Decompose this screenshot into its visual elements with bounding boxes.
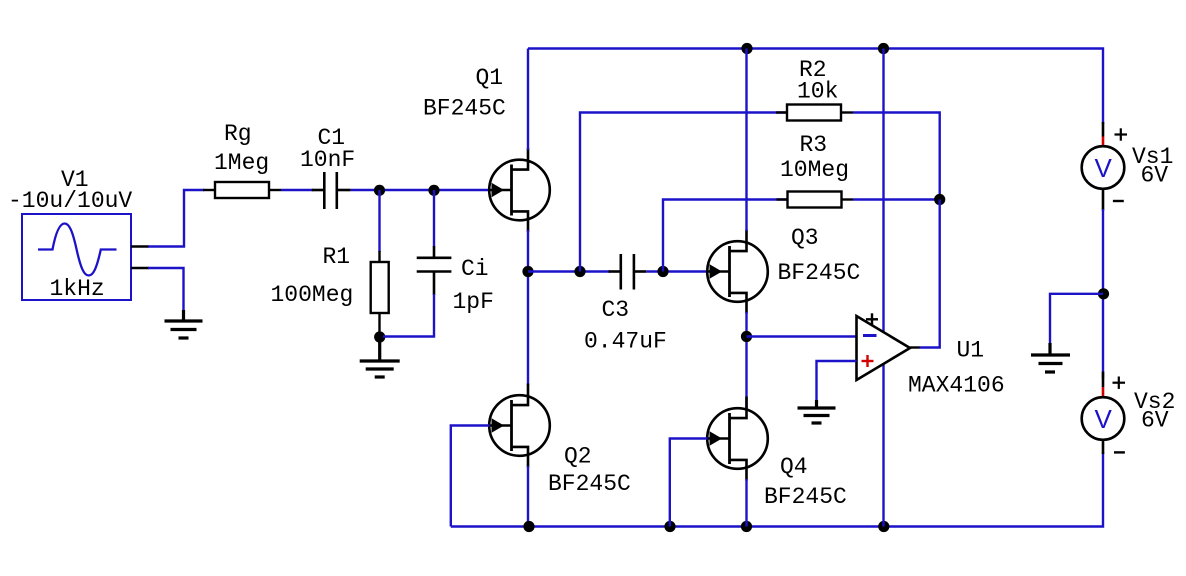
opamp U1 power top wire — [882, 49, 884, 334]
svg-text:BF245C: BF245C — [778, 260, 861, 286]
svg-text:Q1: Q1 — [476, 65, 504, 91]
node dot R2 R3 output — [934, 194, 945, 205]
svg-text:Q2: Q2 — [564, 444, 592, 470]
svg-text:1Meg: 1Meg — [214, 150, 269, 176]
wire output column down to opamp output — [919, 200, 940, 348]
wire Q2 gate loop — [451, 426, 490, 527]
svg-text:1kHz: 1kHz — [50, 276, 105, 302]
wire R3 right to output node — [853, 198, 940, 200]
wire Vs1 minus to mid node — [1102, 209, 1104, 379]
node dot opamp Vminus bottom rail — [878, 521, 889, 532]
wire R2 right to output column — [853, 113, 940, 196]
svg-text:V: V — [1095, 404, 1113, 434]
svg-text:U1: U1 — [957, 338, 985, 364]
op-amp U1 — [857, 313, 920, 380]
wire Q1 source down to Q2 drain — [527, 230, 529, 385]
svg-text:C3: C3 — [602, 297, 630, 323]
svg-text:R1: R1 — [323, 244, 351, 270]
transistor Q3 BF245C — [707, 230, 768, 314]
wire C1 to Q1 gate — [351, 189, 490, 191]
wire Rg to C1 — [281, 189, 313, 191]
capacitor Ci — [417, 246, 452, 295]
svg-text:0.47uF: 0.47uF — [584, 329, 667, 355]
svg-text:100Meg: 100Meg — [271, 282, 354, 308]
svg-text:6V: 6V — [1141, 163, 1169, 189]
svg-text:Q3: Q3 — [791, 225, 819, 251]
svg-text:V: V — [1095, 153, 1113, 183]
ground at R1 — [360, 340, 400, 377]
transistor Q4 BF245C — [707, 397, 768, 481]
resistor R3 — [777, 192, 854, 208]
wire Q2 source to bottom rail — [527, 466, 529, 527]
ground at opamp plus input — [798, 400, 836, 423]
wire Q1 source to C3 — [528, 270, 610, 272]
resistor Rg — [203, 182, 281, 198]
wire Q4 gate loop — [670, 439, 708, 527]
node dot supply midpoint — [1098, 288, 1109, 299]
svg-text:BF245C: BF245C — [423, 96, 506, 122]
node dot Q2 source bottom rail — [523, 521, 534, 532]
svg-text:10Meg: 10Meg — [780, 157, 849, 183]
wire mid node to ground — [1050, 294, 1103, 345]
ground at V1 — [165, 310, 203, 338]
ground at supply midpoint — [1031, 343, 1070, 372]
capacitor C1 — [312, 172, 351, 209]
wire feedback riser to R2 — [580, 113, 787, 272]
svg-text:Ci: Ci — [461, 256, 489, 282]
transistor Q1 BF245C — [489, 148, 550, 232]
opamp U1 power bottom wire — [882, 363, 884, 527]
node dot Q4 gate bottom rail — [664, 521, 675, 532]
svg-text:6V: 6V — [1141, 408, 1169, 434]
wire Q4 source to bottom rail — [745, 479, 747, 527]
wire Q3 drain to top rail — [745, 49, 747, 232]
svg-text:MAX4106: MAX4106 — [908, 373, 1005, 399]
node dot top rail Q3 — [741, 43, 752, 54]
wire bottom supply rail — [451, 452, 1103, 527]
node dot at Ci top — [428, 185, 439, 196]
svg-text:10k: 10k — [797, 79, 838, 105]
node dot Q4 source bottom rail — [741, 521, 752, 532]
voltage source Vs1 — [1082, 122, 1127, 211]
wire Ci top — [433, 190, 435, 247]
capacitor C3 — [609, 254, 647, 290]
resistor R1 — [371, 251, 389, 333]
wire Ci bottom to R1 bottom node — [383, 294, 434, 337]
svg-text:Q4: Q4 — [780, 454, 808, 480]
svg-text:BF245C: BF245C — [764, 484, 847, 510]
node dot C3 left — [574, 266, 585, 277]
svg-text:1pF: 1pF — [453, 289, 494, 315]
node dot Q1 source — [522, 266, 533, 277]
resistor R2 — [776, 105, 853, 121]
svg-text:10nF: 10nF — [300, 147, 355, 173]
node dot top rail opamp — [878, 43, 889, 54]
node dot Q3 gate — [657, 266, 668, 277]
node dot Q3 source — [741, 331, 752, 342]
wire opamp plus input — [817, 361, 857, 402]
svg-text:Rg: Rg — [224, 121, 252, 147]
svg-text:-10u/10uV: -10u/10uV — [8, 188, 132, 214]
node dot at R1 bottom — [374, 331, 385, 342]
node dot at R1 top — [374, 185, 385, 196]
wire R3 riser to Q3 gate node — [663, 200, 788, 272]
wire down to R1 — [378, 190, 380, 252]
wire V1 plus output to Rg — [148, 190, 204, 247]
wire Q3 source to opamp minus input — [747, 335, 857, 337]
wire top supply rail — [528, 49, 1103, 125]
wire V1 minus output down — [148, 268, 184, 312]
svg-text:R3: R3 — [800, 132, 828, 158]
wire Q1 drain to top rail — [527, 49, 529, 151]
wire C3 to Q3 gate — [646, 270, 707, 272]
svg-text:BF245C: BF245C — [548, 471, 631, 497]
transistor Q2 BF245C — [489, 384, 550, 468]
wire Q3 source down to Q4 drain — [745, 312, 747, 410]
voltage source Vs2 — [1082, 372, 1125, 455]
voltage source V1 — [22, 214, 149, 300]
